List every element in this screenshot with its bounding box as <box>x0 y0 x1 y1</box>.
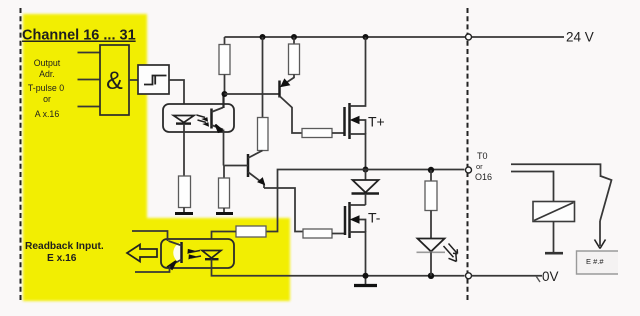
svg-text:T+: T+ <box>368 114 385 130</box>
terminal circle 0V <box>466 273 472 279</box>
switch arrow <box>599 221 601 246</box>
LED D3 <box>418 239 445 252</box>
U4 light arrows <box>190 251 202 259</box>
0V label <box>536 276 540 282</box>
resistor R7 <box>303 229 332 238</box>
wire R6 to opto2 LED <box>212 232 237 240</box>
yellow highlight region <box>23 14 290 301</box>
svg-text:Output: Output <box>34 58 61 68</box>
relay bottom wire <box>553 222 555 253</box>
wire node B to readback tap <box>266 170 366 232</box>
resistor R4 <box>258 118 269 151</box>
resistor R9 chain <box>223 166 225 179</box>
right dashed border <box>467 8 469 302</box>
resistor R2 <box>293 37 295 44</box>
node dot LED branch top <box>428 167 434 173</box>
schmitt trigger U2 <box>138 65 169 94</box>
wire R3 to T+ gate <box>332 132 345 134</box>
U3 LED <box>174 116 195 123</box>
svg-text:Adr.: Adr. <box>39 69 55 79</box>
input box E <box>577 251 619 274</box>
svg-text:or: or <box>43 94 51 104</box>
U4 LED <box>202 251 221 259</box>
U4 emitter lead <box>135 266 170 272</box>
relay coil wire <box>511 172 554 202</box>
U3 collector wire <box>222 94 224 108</box>
24V top rail <box>225 36 565 38</box>
AND gate U1 <box>100 45 129 115</box>
svg-text:O16: O16 <box>475 172 492 182</box>
wire schmitt to optocoupler LED <box>169 80 184 104</box>
relay K1 <box>533 202 575 222</box>
wire base Q1 <box>225 93 280 95</box>
svg-text:or: or <box>476 162 483 171</box>
label Output Adr. T-pulse 0 or A x.16 <box>28 58 64 119</box>
0V bottom rail <box>212 268 465 276</box>
switch blade <box>600 176 612 221</box>
node dot rail-R4 <box>260 34 266 40</box>
resistor R6 <box>236 226 266 237</box>
U4 phototransistor body <box>173 243 181 264</box>
node dot rail-LED <box>428 273 434 279</box>
left dashed border <box>20 8 22 302</box>
ground under R8 <box>175 212 193 215</box>
svg-text:E x.16: E x.16 <box>47 253 77 264</box>
transistor Q1 (PNP) <box>278 81 281 98</box>
D3 light arrows <box>444 244 458 262</box>
node dot rail-T+ <box>363 34 369 40</box>
ground at bottom rail <box>365 276 367 284</box>
svg-text:0V: 0V <box>542 269 559 284</box>
resistor R1 <box>224 37 226 45</box>
node dot rail-T- <box>363 273 369 279</box>
svg-text:E #.#: E #.# <box>586 257 604 266</box>
AND gate input wires <box>78 53 101 107</box>
relay end bar <box>545 252 563 255</box>
U3 light arrows <box>197 115 207 122</box>
wire AND to schmitt <box>129 79 138 81</box>
U3 phototransistor <box>210 109 213 129</box>
MOSFET T- <box>344 206 347 235</box>
U4 phototransistor <box>180 242 183 263</box>
node dot A <box>222 91 228 97</box>
node dot rail-R2 <box>291 34 297 40</box>
readback hollow arrow <box>127 245 157 262</box>
resistor R5 <box>430 170 432 181</box>
resistor R3 <box>302 129 332 138</box>
optocoupler U4 box <box>161 239 234 268</box>
wire R7 to T- gate <box>332 233 345 235</box>
relay top wire <box>511 164 601 177</box>
MOSFET T+ <box>343 107 346 136</box>
resistor R8 chain <box>183 132 185 176</box>
svg-text:24 V: 24 V <box>566 30 594 45</box>
wire node B right to terminal <box>366 169 465 171</box>
svg-text:&: & <box>106 67 123 95</box>
0V line right <box>472 275 543 277</box>
node dot B <box>363 167 369 173</box>
svg-text:Readback Input.: Readback Input. <box>25 241 104 252</box>
svg-text:T-pulse 0: T-pulse 0 <box>28 83 64 93</box>
optocoupler U3 box <box>163 104 234 132</box>
U3 emitter wire <box>223 130 225 166</box>
terminal circle T0 <box>466 167 472 173</box>
U4 collector lead <box>132 231 168 241</box>
diode D1 <box>365 170 367 181</box>
ground under R9 <box>216 212 233 215</box>
svg-text:A x.16: A x.16 <box>35 109 60 119</box>
terminal circle 24V <box>466 34 472 40</box>
svg-text:Channel 16 ... 31: Channel 16 ... 31 <box>22 28 136 44</box>
transistor Q2 (NPN) <box>247 154 250 177</box>
svg-text:T0: T0 <box>477 151 488 161</box>
wire Q2 emitter to R7 <box>264 188 303 232</box>
vertical wire x262 <box>262 37 264 118</box>
svg-text:T-: T- <box>368 210 381 226</box>
